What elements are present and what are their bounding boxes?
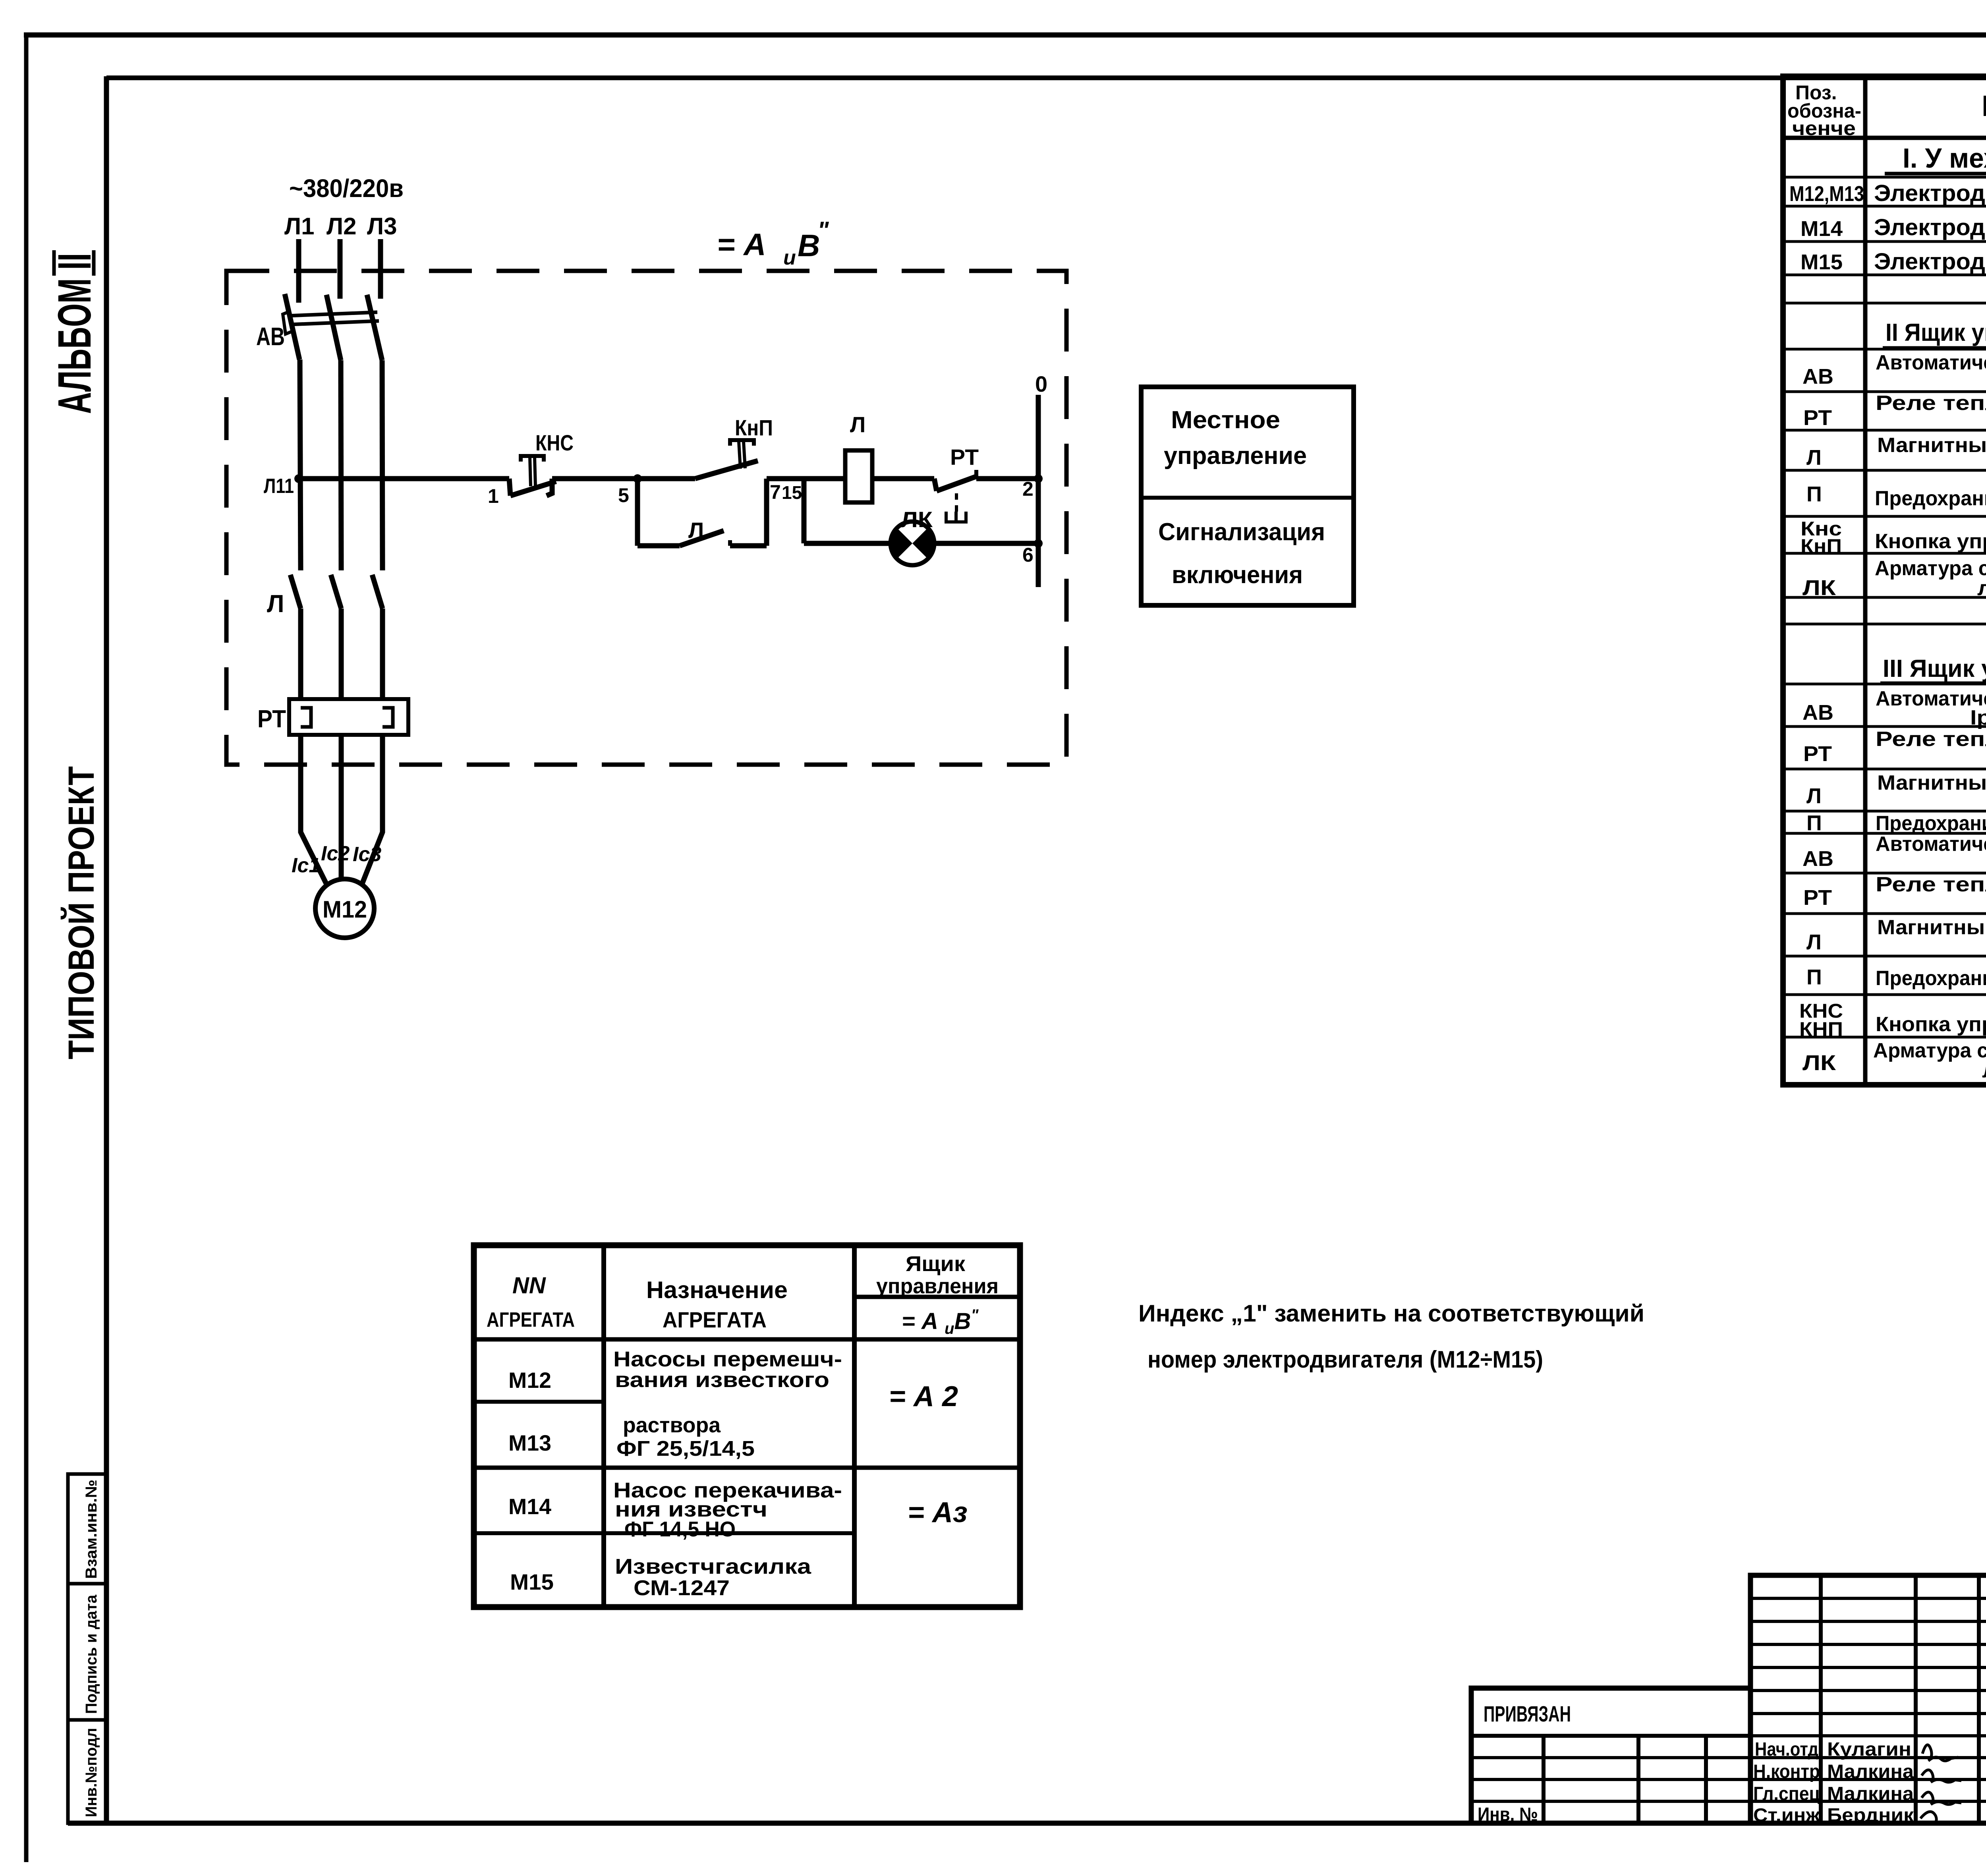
CIRCUIT <box>226 174 1066 938</box>
svg-text:РТ: РТ <box>1803 406 1832 430</box>
motor M12 circle <box>315 879 374 938</box>
album II overbar <box>52 250 56 276</box>
svg-text:ЛК: ЛК <box>901 507 933 532</box>
svg-text:КНС: КНС <box>535 430 574 455</box>
coil L rectangle <box>845 450 872 502</box>
title block revision grid outer <box>1750 1575 1986 1823</box>
aggregate table row line M13/M14 <box>474 1466 1020 1470</box>
wire phase L3 upper <box>378 239 383 299</box>
svg-text:управление: управление <box>1164 442 1307 469</box>
svg-text:Магнитный пускатель ПМЕ111: Магнитный пускатель ПМЕ111 <box>1877 771 1986 794</box>
node L11 <box>294 474 303 483</box>
svg-text:Нач.отд: Нач.отд <box>1755 1739 1818 1760</box>
svg-text:= Аз: = Аз <box>908 1497 968 1528</box>
wire control KNS to node5 <box>552 476 695 481</box>
wire control main left <box>299 476 509 481</box>
svg-text:Реле тепловое ТРН-10: Реле тепловое ТРН-10 <box>1876 728 1986 751</box>
wire coil to RT contact <box>872 476 934 481</box>
svg-text:Автоматический выключатель АП5: Автоматический выключатель АП50-3МТ <box>1876 351 1986 374</box>
svg-text:1: 1 <box>488 485 499 507</box>
sheet outer left border <box>24 33 29 1862</box>
svg-text:NN: NN <box>512 1273 546 1298</box>
svg-text:Насосы перемешч-: Насосы перемешч- <box>613 1347 842 1371</box>
lamp LK right sector <box>912 528 934 559</box>
svg-text:Кнопка управления КЕ011У3: Кнопка управления КЕ011У3 <box>1875 530 1986 553</box>
stamp strip box vzam-inv <box>68 1474 106 1584</box>
svg-text:Реле тепловое ТРН-10: Реле тепловое ТРН-10 <box>1876 392 1986 415</box>
svg-text:Арматура сигнальная АЕ 3211У3: Арматура сигнальная АЕ 3211У3 <box>1873 1039 1986 1062</box>
svg-text:Ст.инж: Ст.инж <box>1753 1805 1820 1826</box>
svg-text:Л: Л <box>1806 784 1822 808</box>
wire phase L2 middle <box>341 360 341 570</box>
svg-text:Назначение: Назначение <box>646 1277 788 1303</box>
wire phase L2 lower <box>339 609 344 700</box>
svg-text:Инв.№подл: Инв.№подл <box>83 1728 100 1817</box>
svg-text:ЛК: ЛК <box>1802 576 1836 600</box>
TITLE BLOCK <box>1471 1575 1986 1823</box>
svg-text:лчнза красная: лчнза красная <box>1982 1059 1986 1082</box>
svg-text:Арматура сигнальная АЕ3211У3: Арматура сигнальная АЕ3211У3 <box>1875 557 1986 580</box>
svg-text:III Ящик управления=А3(ЯУ5115-: III Ящик управления=А3(ЯУ5115-03А2Л-03А2… <box>1883 655 1986 682</box>
stop button KNS right terminal <box>547 479 552 496</box>
svg-text:Автоматический выключатель АП5: Автоматический выключатель АП50-3МТ <box>1876 687 1986 710</box>
wire lamp to node6 <box>934 541 1038 546</box>
svg-text:Автоматический выключатель АП5: Автоматический выключатель АП50-3МТ <box>1876 833 1986 856</box>
svg-text:М12,М13: М12,М13 <box>1789 182 1864 206</box>
aggregate table header bottom <box>474 1337 854 1342</box>
wire lamp branch down <box>802 479 807 543</box>
node 2 <box>1034 474 1043 483</box>
start button KNP actuator bar <box>730 440 754 446</box>
svg-text:М14: М14 <box>508 1494 551 1519</box>
revision grid vertical 2 <box>1914 1575 1918 1823</box>
svg-text:Малкина: Малкина <box>1827 1761 1914 1782</box>
local control box divider <box>1141 496 1354 500</box>
svg-text:Н.контр: Н.контр <box>1753 1761 1820 1782</box>
lamp LK circle <box>891 522 934 565</box>
breaker AB blade 2 <box>326 295 341 360</box>
svg-text:": " <box>817 217 829 243</box>
svg-text:Местное: Местное <box>1171 406 1280 434</box>
AGGREGATE TABLE <box>474 1245 1020 1607</box>
breaker AB blade 1 <box>285 294 299 359</box>
thermal relay RT box <box>289 699 408 735</box>
wire seal-in branch bottom <box>638 543 680 549</box>
svg-text:М12: М12 <box>323 896 367 923</box>
wire phase L3 middle <box>382 360 383 570</box>
thermal contact RT right tick <box>974 470 978 479</box>
svg-text:Бердник: Бердник <box>1827 1805 1914 1826</box>
stamp strip box podpis-i-data <box>68 1584 106 1720</box>
svg-text:АВ: АВ <box>1802 365 1833 388</box>
frame bottom border <box>68 1821 1986 1826</box>
svg-text:ФГ 25,5/14,5: ФГ 25,5/14,5 <box>616 1437 755 1461</box>
wire seal-in branch up <box>764 479 769 546</box>
svg-text:Л: Л <box>850 412 865 437</box>
signature scribble 2 <box>1922 1770 1961 1782</box>
svg-text:Малкина: Малкина <box>1827 1783 1914 1805</box>
aggregate table yashchik sub-line <box>854 1295 1020 1299</box>
svg-text:П: П <box>1806 965 1822 989</box>
wire control node7 to coil <box>767 476 845 481</box>
svg-text:Предохранитель ПРС-6-П;Iпл.вст: Предохранитель ПРС-6-П;Iпл.вст.=6А <box>1875 487 1986 510</box>
svg-text:управления: управления <box>876 1274 999 1298</box>
svg-text:Электродвигатель: Электродвигатель <box>1874 214 1986 240</box>
svg-text:М13: М13 <box>508 1430 551 1455</box>
wire phase L2 upper <box>338 239 343 299</box>
privyazan sub rows <box>1471 1756 1750 1759</box>
svg-text:ФГ 14,5 НО: ФГ 14,5 НО <box>624 1517 736 1541</box>
parts table row lines <box>1783 176 1986 179</box>
svg-text:Реле тепловое ТРН-10: Реле тепловое ТРН-10 <box>1876 873 1986 896</box>
svg-text:ПРИВЯЗАН: ПРИВЯЗАН <box>1484 1701 1571 1726</box>
svg-text:АЛЬБОМ II: АЛЬБОМ II <box>48 253 101 414</box>
svg-text:= А: = А <box>717 227 766 262</box>
thermal relay RT heater 1 <box>301 708 311 727</box>
svg-text:= А 2: = А 2 <box>889 1381 958 1412</box>
frame inner top border <box>106 75 1986 80</box>
thermal contact RT release dashed link <box>955 493 958 512</box>
svg-text:Кулагин: Кулагин <box>1827 1739 1911 1760</box>
svg-text:КнП: КнП <box>735 415 773 440</box>
svg-text:Индекс „1" заменить на соответ: Индекс „1" заменить на соответствующий <box>1138 1300 1644 1327</box>
breaker AB latch flag <box>283 311 292 334</box>
signature scribble 4 <box>1920 1812 1960 1824</box>
RIGHT TABLE <box>1783 76 1986 1085</box>
contactor L blade 2 <box>331 575 341 609</box>
svg-text:Подпись и дата: Подпись и дата <box>83 1594 100 1714</box>
wire phase L1 to motor <box>301 735 330 891</box>
svg-text:АВ: АВ <box>1802 847 1833 871</box>
thermal contact RT step <box>934 479 937 491</box>
svg-text:линза красная: линза красная <box>1977 577 1986 600</box>
neutral bus 0 <box>1036 395 1041 587</box>
svg-text:РТ: РТ <box>1803 742 1832 766</box>
svg-text:КНП: КНП <box>1799 1018 1843 1040</box>
privyazan sub columns <box>1542 1736 1546 1823</box>
aggregate table column line 2 <box>852 1245 857 1607</box>
svg-text:I. У механизма: I. У механизма <box>1903 143 1986 174</box>
auxiliary contact L right terminal tick <box>728 540 732 546</box>
start button KNP blade <box>695 461 758 479</box>
wire seal-in branch right <box>730 543 767 549</box>
svg-text:Магнитный пускатель ПМЕ 111: Магнитный пускатель ПМЕ 111 <box>1877 916 1986 939</box>
svg-text:АГРЕГАТА: АГРЕГАТА <box>663 1307 767 1332</box>
svg-text:Iс1: Iс1 <box>292 854 320 877</box>
svg-text:5: 5 <box>618 484 629 506</box>
svg-text:II Ящик управления=А2(ЯУ5115-0: II Ящик управления=А2(ЯУ5115-03А2П-03А2Л… <box>1886 319 1986 346</box>
stop button KNS blade <box>510 481 556 496</box>
sheet outer top border <box>24 33 1986 38</box>
svg-text:Л11: Л11 <box>264 475 294 498</box>
wire phase L1 middle <box>300 359 301 570</box>
aggregate table row line M12/M13 <box>474 1400 604 1404</box>
svg-text:Л1: Л1 <box>284 213 314 240</box>
svg-text:Л: Л <box>688 518 704 543</box>
album II underbar <box>92 250 96 276</box>
NOTE <box>1138 1300 1644 1373</box>
svg-text:Iс2: Iс2 <box>321 842 350 865</box>
svg-text:Л: Л <box>1806 446 1822 469</box>
svg-text:П: П <box>1806 482 1822 506</box>
svg-text:РТ: РТ <box>257 705 286 733</box>
svg-text:и: и <box>783 246 796 269</box>
wire phase L3 lower <box>380 609 385 700</box>
svg-text:вания известкого: вания известкого <box>615 1368 829 1392</box>
svg-text:= А иВ": = А иВ" <box>902 1306 979 1337</box>
aggregate table yashchik header bottom <box>854 1337 1020 1342</box>
parts table header bottom line <box>1783 136 1986 140</box>
svg-text:Л: Л <box>1806 930 1822 954</box>
svg-text:0: 0 <box>1035 371 1047 396</box>
wire lamp branch left <box>804 541 891 546</box>
svg-text:Предохранитель ПРС-6-П; Iпл.вс: Предохранитель ПРС-6-П; Iпл.вст= 6А <box>1876 967 1986 990</box>
stop button KNS actuator stem <box>530 458 531 486</box>
contactor L blade 1 <box>290 575 301 609</box>
privyazan box divider <box>1471 1734 1750 1738</box>
thermal contact RT release symbol <box>946 512 966 522</box>
privyazan box <box>1471 1688 1750 1823</box>
start button KNP actuator stem <box>739 442 740 469</box>
thermal relay RT heater 3 <box>383 708 393 727</box>
svg-text:7: 7 <box>770 481 781 503</box>
svg-text:Кнопка управленця КЕ011У3: Кнопка управленця КЕ011У3 <box>1876 1013 1986 1036</box>
svg-text:Ящик: Ящик <box>906 1252 966 1276</box>
svg-text:15: 15 <box>782 482 802 503</box>
svg-text:включения: включения <box>1172 561 1303 589</box>
wire phase L1 upper <box>296 239 301 303</box>
svg-text:Электродвигатель: Электродвигатель <box>1874 249 1986 274</box>
aggregate table row line M14/M15 <box>474 1531 854 1535</box>
lamp LK left sector <box>891 528 912 559</box>
svg-text:П: П <box>1806 811 1822 835</box>
LOCAL CONTROL BOX <box>1141 387 1354 605</box>
svg-text:АВ: АВ <box>256 322 285 351</box>
svg-text:Известчгасилка: Известчгасилка <box>615 1555 811 1578</box>
thermal contact RT blade <box>937 476 978 491</box>
svg-text:Инв. №: Инв. № <box>1478 1804 1538 1825</box>
svg-text:ченче: ченче <box>1792 117 1856 139</box>
aggregate table outer border <box>474 1245 1020 1607</box>
svg-text:ЛК: ЛК <box>1802 1051 1836 1075</box>
parts table column line pos/naim <box>1863 76 1868 1085</box>
auxiliary contact L blade <box>680 531 724 546</box>
svg-text:Л2: Л2 <box>326 213 356 240</box>
svg-text:Гл.спец: Гл.спец <box>1753 1783 1820 1805</box>
svg-text:КнП: КнП <box>1801 535 1842 557</box>
svg-text:Iс3: Iс3 <box>353 843 381 866</box>
revision grid row lines <box>1750 1597 1986 1600</box>
svg-text:Л: Л <box>267 590 284 618</box>
revision grid vertical 1 <box>1819 1575 1823 1823</box>
svg-text:РТ: РТ <box>950 444 979 469</box>
node 6 <box>1034 539 1043 548</box>
signature scribble 3 <box>1922 1792 1961 1805</box>
breaker AB blade 3 <box>367 295 382 360</box>
svg-text:М15: М15 <box>510 1569 554 1594</box>
parts table outer border <box>1783 76 1986 1085</box>
breaker AB tie bar <box>288 312 377 316</box>
wire seal-in branch down <box>635 479 640 546</box>
aggregate table column line 1 <box>601 1245 606 1607</box>
contactor L blade 3 <box>372 575 383 609</box>
wire RT contact to node2 <box>976 476 1038 481</box>
frame inner left border <box>104 76 109 1823</box>
svg-text:~380/220в: ~380/220в <box>289 174 404 203</box>
svg-text:Сигнализация: Сигнализация <box>1158 518 1325 546</box>
svg-text:Электродвигатель: Электродвигатель <box>1874 180 1986 206</box>
svg-text:6: 6 <box>1022 544 1034 566</box>
svg-text:2: 2 <box>1022 478 1034 500</box>
revision grid vertical 3 <box>1977 1575 1981 1823</box>
node 5 <box>633 474 642 483</box>
wire phase L1 lower <box>298 609 303 700</box>
svg-text:М15: М15 <box>1801 250 1843 274</box>
svg-text:Магнитный пускатель ПМЕ111: Магнитный пускатель ПМЕ111 <box>1877 434 1986 457</box>
designation label =AiB <box>717 217 829 269</box>
svg-text:Iрасч. = 6,4А: Iрасч. = 6,4А <box>1970 706 1986 729</box>
wire phase L2 to motor <box>339 735 344 880</box>
svg-text:раствора: раствора <box>623 1413 721 1437</box>
svg-text:Наименование: Наименование <box>1982 89 1986 122</box>
svg-text:АГРЕГАТА: АГРЕГАТА <box>487 1308 575 1331</box>
stop button KNS step <box>509 479 510 496</box>
svg-text:СМ-1247: СМ-1247 <box>634 1576 730 1600</box>
LEFT MARGIN <box>48 250 106 1823</box>
svg-text:Предохранитель ПРС-6-П;Iпл.вст: Предохранитель ПРС-6-П;Iпл.вст.= 6А <box>1876 812 1986 835</box>
svg-text:Л3: Л3 <box>367 213 397 240</box>
svg-text:Взам.инв.№: Взам.инв.№ <box>83 1480 100 1579</box>
svg-text:РТ: РТ <box>1803 886 1832 910</box>
dashed enclosure box A1B <box>226 271 1066 765</box>
svg-text:В: В <box>798 228 820 263</box>
stamp strip box inv-n-podl <box>68 1720 106 1823</box>
svg-text:М14: М14 <box>1801 217 1843 241</box>
svg-text:АВ: АВ <box>1802 701 1833 725</box>
svg-text:ТИПОВОЙ ПРОЕКТ: ТИПОВОЙ ПРОЕКТ <box>60 766 102 1059</box>
stop button KNS actuator bar <box>521 456 544 462</box>
signature scribble 1 <box>1922 1745 1958 1761</box>
svg-text:М12: М12 <box>508 1368 551 1393</box>
local control box rect <box>1141 387 1354 605</box>
wire phase L3 to motor <box>359 735 383 891</box>
svg-text:номер электродвигателя (М12÷: номер электродвигателя (М12÷М15) <box>1148 1346 1543 1373</box>
